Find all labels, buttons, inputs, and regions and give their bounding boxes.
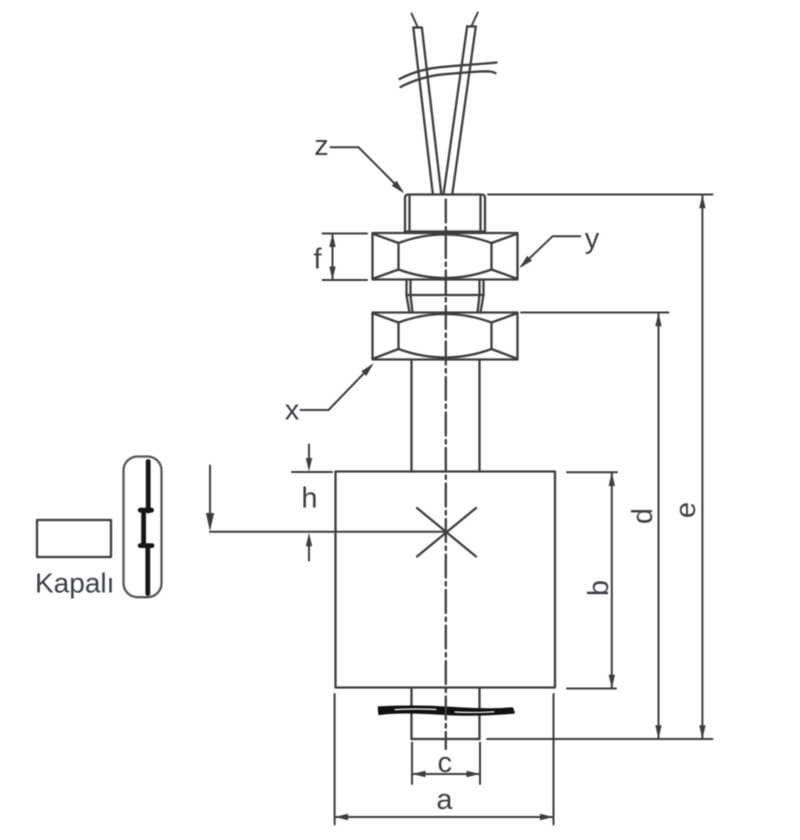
svg-text:Kapalı: Kapalı [35,568,114,599]
float body [336,472,556,688]
hex nut X (lower mounting nut) [373,313,518,360]
centerline (vertical axis, dash-dot) [445,200,447,750]
leader x [301,364,374,411]
leader z [331,147,405,193]
dimension d [521,313,669,740]
svg-text:e: e [670,502,702,518]
wire W1 (left lead) [412,14,442,195]
svg-text:f: f [313,244,322,276]
retaining clip (black washer) [379,707,514,715]
stem tube (upper) [412,360,480,472]
svg-text:y: y [585,223,600,255]
reed capsule outline [124,457,162,598]
wire W2 (right lead) [444,13,478,195]
bottom reference line [487,738,713,740]
dimension f [323,234,368,281]
dimension b [567,472,617,688]
dimension e [488,195,713,740]
level pointer arrow [206,466,214,532]
svg-text:d: d [627,508,659,524]
dimension c [412,743,480,784]
break mark (cable break squiggle) [400,63,497,88]
svg-text:a: a [436,784,453,816]
dimension a [335,694,554,825]
reed switch contacts (closed) [140,462,152,594]
svg-text:x: x [285,395,300,427]
svg-text:h: h [301,483,317,515]
stem tube (lower) [412,688,480,740]
leader y [520,236,581,268]
closed-switch sample rectangle [37,520,111,557]
switching point X mark [417,508,476,557]
svg-text:b: b [583,580,615,596]
liquid level line [210,531,446,533]
threaded bushing between nuts [407,280,484,313]
dimension h [292,445,332,561]
hex nut Y (upper locknut) [373,233,518,280]
svg-text:z: z [314,130,329,162]
svg-text:c: c [438,747,453,779]
cable gland cap Z (top body) [405,195,485,232]
